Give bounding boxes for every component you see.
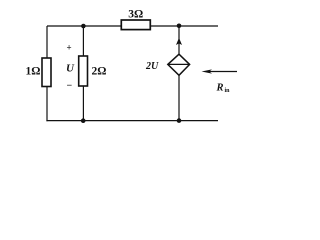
svg-text:+: + (67, 43, 72, 53)
junction dot top 2ohm branch (81, 24, 86, 29)
wire top-right segment (151, 25, 219, 27)
wire left vertical upper (46, 26, 48, 58)
svg-text:−: − (67, 81, 73, 92)
Rin port arrow (209, 71, 237, 73)
wire source branch lower (178, 76, 180, 121)
svg-text:2Ω: 2Ω (92, 66, 107, 78)
resistor R=3ohm box (121, 20, 150, 30)
resistor R=2ohm box (79, 56, 88, 86)
current direction arrowhead (176, 38, 182, 45)
svg-text:2U: 2U (145, 61, 159, 72)
junction dot top source branch (177, 24, 182, 29)
svg-text:R: R (216, 83, 224, 94)
wire 2ohm branch lower (82, 86, 84, 121)
resistor R=1ohm box (42, 58, 51, 87)
wire bottom (46, 120, 218, 122)
junction dot bottom 2ohm branch (81, 118, 86, 123)
svg-text:U: U (66, 63, 75, 75)
svg-text:1Ω: 1Ω (26, 66, 41, 78)
wire top-left segment (47, 25, 121, 27)
wire left vertical lower (46, 87, 48, 122)
junction dot bottom source branch (177, 118, 182, 123)
wire 2ohm branch upper (82, 26, 84, 56)
dependent source U1 diamond (168, 54, 190, 75)
svg-text:3Ω: 3Ω (128, 8, 143, 20)
wire source branch upper (178, 26, 180, 54)
svg-text:in: in (225, 88, 231, 94)
dependent source inner chord (168, 63, 190, 65)
